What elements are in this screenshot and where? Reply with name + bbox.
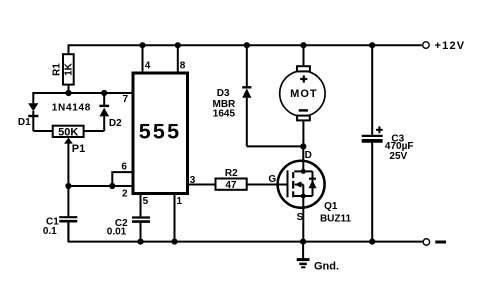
svg-text:D2: D2 <box>109 118 122 129</box>
wire source down to rail <box>302 196 304 242</box>
svg-text:MOT: MOT <box>290 88 317 100</box>
node junction pin1/bottom rail <box>171 239 177 245</box>
wire top rail +12V <box>69 45 422 54</box>
pin 1 <box>175 194 183 242</box>
svg-text:8: 8 <box>180 60 186 71</box>
svg-text:47: 47 <box>225 180 237 191</box>
pin 4 <box>139 42 150 73</box>
transistor Q1 BUZ11 MOSFET <box>268 150 351 224</box>
svg-text:4: 4 <box>145 60 151 71</box>
node junction C3 top rail <box>369 42 375 48</box>
node terminal +12V <box>423 40 466 52</box>
ground <box>297 242 339 273</box>
pin 8 <box>175 42 186 73</box>
svg-text:555: 555 <box>139 120 181 144</box>
resistor R1 <box>52 54 75 93</box>
pin 5 <box>141 194 149 217</box>
svg-text:7: 7 <box>123 94 129 105</box>
IC U1 555 timer <box>133 73 188 194</box>
svg-text:D1: D1 <box>18 117 31 128</box>
node junction D2 top <box>101 90 107 96</box>
node terminal minus <box>423 239 446 246</box>
svg-text:Gnd.: Gnd. <box>314 261 339 273</box>
wire drain up to motor node <box>302 146 304 161</box>
wire pin3 to R2 <box>189 184 216 186</box>
node junction C2/bottom rail <box>137 239 143 245</box>
svg-text:50K: 50K <box>58 126 78 138</box>
svg-text:1: 1 <box>177 196 183 207</box>
svg-text:+12V: +12V <box>435 40 466 52</box>
svg-text:1N4148: 1N4148 <box>52 102 91 113</box>
svg-text:5: 5 <box>143 196 149 207</box>
svg-text:1K: 1K <box>64 62 75 76</box>
wire to pin 6 <box>112 172 132 186</box>
node junction wiper/C1/pin2 <box>65 183 71 189</box>
diode D2 <box>84 93 123 131</box>
potentiometer P1 50K <box>53 126 86 186</box>
svg-text:6: 6 <box>121 161 127 172</box>
capacitor C3 <box>362 45 414 241</box>
svg-text:2: 2 <box>122 188 128 199</box>
svg-text:R2: R2 <box>225 168 238 179</box>
svg-text:P1: P1 <box>72 143 85 155</box>
svg-text:R1: R1 <box>52 63 63 76</box>
wire net pin7 (R1 bottom / D1 / D2 to 555 pin 7) <box>33 92 131 94</box>
svg-text:G: G <box>268 174 276 185</box>
wire bottom rail <box>68 222 423 241</box>
svg-text:0.01: 0.01 <box>107 227 127 238</box>
wire R2 to gate <box>247 184 288 186</box>
resistor R2 <box>216 168 247 191</box>
node junction D3 top rail <box>244 42 250 48</box>
svg-text:0.1: 0.1 <box>43 226 57 237</box>
node junction drain <box>300 143 306 149</box>
capacitor C1 <box>43 186 77 242</box>
node junction C3 bottom rail <box>369 239 375 245</box>
svg-text:Q1: Q1 <box>324 201 338 212</box>
svg-text:D: D <box>305 150 312 161</box>
wire to pin 2 <box>68 185 132 187</box>
svg-text:25V: 25V <box>389 151 407 162</box>
node junction source/ground rail <box>300 239 306 245</box>
capacitor C2 <box>107 218 150 242</box>
diode D1 <box>18 92 53 131</box>
node junction pin6 branch <box>109 183 115 189</box>
node junction R1 bottom <box>65 90 71 96</box>
svg-text:1645: 1645 <box>213 108 236 119</box>
svg-text:D3: D3 <box>217 88 230 99</box>
diode D3 MBR1645 <box>213 45 304 146</box>
svg-text:BUZ11: BUZ11 <box>320 213 352 224</box>
motor MOT <box>280 45 325 146</box>
node junction motor top rail <box>300 42 306 48</box>
